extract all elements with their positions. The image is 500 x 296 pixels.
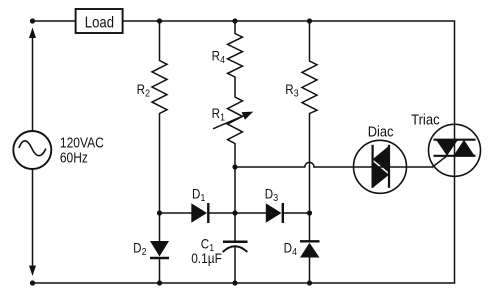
wire triac gate diagonal <box>433 156 448 167</box>
potentiometer R1 <box>213 97 253 144</box>
svg-text:3: 3 <box>294 89 299 100</box>
wire diode row D1 anode <box>160 212 192 214</box>
resistor R2 <box>152 61 167 114</box>
wire source bottom lead <box>32 169 34 267</box>
arrow up at source top <box>29 28 36 39</box>
ac source V1 <box>13 131 51 169</box>
svg-text:D: D <box>284 239 292 255</box>
svg-text:0.1µF: 0.1µF <box>191 250 222 266</box>
wire source top lead <box>32 37 34 132</box>
svg-text:4: 4 <box>220 55 225 66</box>
svg-text:Triac: Triac <box>411 113 440 129</box>
wire C1 bottom lead <box>234 247 236 284</box>
diode D3 <box>266 203 283 223</box>
svg-text:1: 1 <box>220 113 225 124</box>
svg-text:D: D <box>192 185 200 201</box>
node top R4 <box>232 18 237 23</box>
wire diac to triac gate <box>407 166 433 168</box>
wire top left segment <box>33 20 76 22</box>
wire R4 top lead <box>234 21 236 34</box>
svg-text:R: R <box>212 105 220 121</box>
svg-text:2: 2 <box>145 89 150 100</box>
svg-text:R: R <box>137 81 145 97</box>
wire bottom <box>33 282 455 284</box>
svg-text:4: 4 <box>292 247 297 258</box>
svg-text:3: 3 <box>273 193 278 204</box>
wire R2 bottom lead <box>159 114 161 214</box>
svg-text:Load: Load <box>85 14 114 31</box>
wire D4 bottom lead <box>309 258 311 284</box>
diode D1 <box>191 203 208 223</box>
wire R3 top lead <box>309 21 311 61</box>
svg-text:120VAC: 120VAC <box>60 135 104 151</box>
node bottom C1 <box>232 280 237 285</box>
wire node A down to diode row <box>234 167 236 213</box>
diode D4 <box>300 241 320 257</box>
wire D2 bottom lead <box>159 258 161 283</box>
node bottom D4 <box>307 280 312 285</box>
wire D2 top lead <box>159 213 161 241</box>
svg-text:R: R <box>285 81 293 97</box>
wire hop to diac <box>314 166 354 168</box>
svg-text:60Hz: 60Hz <box>60 151 88 167</box>
diac U1 <box>354 140 407 193</box>
wire diode row C1 node to D3 anode <box>235 212 266 214</box>
svg-text:R: R <box>212 48 220 64</box>
capacitor C1 <box>223 242 248 252</box>
svg-text:2: 2 <box>142 247 147 258</box>
wire diode row D1 cathode to C1 node <box>208 212 235 214</box>
node bottom D2 <box>157 280 162 285</box>
node diode row right <box>307 210 312 215</box>
wire hop over R3 lead <box>305 162 314 167</box>
resistor R4 <box>228 34 243 78</box>
triac Q1 <box>429 124 481 176</box>
wire R2 top lead <box>159 21 161 61</box>
node diode row left <box>157 210 162 215</box>
wire top from load to top-right corner <box>123 20 455 22</box>
wire right side vertical through triac <box>454 21 456 283</box>
wire D4 top lead <box>309 213 311 240</box>
node bottom-left corner <box>30 280 35 285</box>
wire R3 bottom lead <box>309 114 311 214</box>
wire between R4 and R1 <box>234 77 236 97</box>
load box <box>76 9 123 33</box>
diode D2 <box>150 241 169 258</box>
resistor R3 <box>302 61 317 114</box>
node top R3 <box>307 18 312 23</box>
node diode row C1 <box>232 210 237 215</box>
svg-text:Diac: Diac <box>368 124 394 140</box>
svg-text:D: D <box>265 185 273 201</box>
wire R1 bottom to node A <box>234 144 236 168</box>
wire diode row D3 cathode to R3 node <box>283 212 310 214</box>
wire C1 top lead <box>234 213 236 241</box>
node top R2 <box>157 18 162 23</box>
R1 wiper arrow <box>213 114 247 129</box>
svg-text:D: D <box>133 239 141 255</box>
node top-left corner <box>30 18 35 23</box>
svg-text:1: 1 <box>201 193 206 204</box>
arrow down at source bottom <box>29 266 36 277</box>
wire gate line from node A to hop <box>235 166 305 168</box>
node A R1 bottom <box>232 164 237 169</box>
